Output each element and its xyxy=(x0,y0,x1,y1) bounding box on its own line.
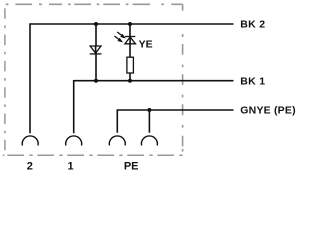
resistor R1 xyxy=(127,57,133,73)
svg-text:2: 2 xyxy=(27,161,33,173)
svg-text:PE: PE xyxy=(124,161,139,173)
contact 2 xyxy=(22,136,38,146)
svg-text:YE: YE xyxy=(139,39,153,51)
svg-text:BK 1: BK 1 xyxy=(240,76,265,88)
node junction BK1 / diode branch xyxy=(94,79,98,83)
wire branch to contact 2 xyxy=(29,23,31,133)
node junction BK2 / LED branch xyxy=(128,22,132,26)
svg-text:1: 1 xyxy=(67,161,73,173)
node junction BK2 / diode branch xyxy=(94,22,98,26)
wire BK1 rail xyxy=(74,80,234,82)
node junction PE rail / right contact xyxy=(147,108,151,112)
LED YE xyxy=(114,32,135,44)
wire LED branch xyxy=(129,24,131,81)
svg-text:BK 2: BK 2 xyxy=(240,19,265,31)
diode V1 xyxy=(90,46,102,54)
wire GNYE (PE) rail xyxy=(117,110,233,133)
wire diode branch xyxy=(95,24,97,81)
node junction BK1 / resistor branch xyxy=(128,79,132,83)
contact 1 xyxy=(66,136,82,146)
wire BK2 top rail xyxy=(30,23,234,25)
contact PE right xyxy=(141,136,157,146)
wire branch to contact 1 xyxy=(73,80,75,133)
contact PE left xyxy=(109,136,125,146)
wire branch to contact PE right xyxy=(148,110,150,133)
svg-text:GNYE (PE): GNYE (PE) xyxy=(240,105,295,117)
